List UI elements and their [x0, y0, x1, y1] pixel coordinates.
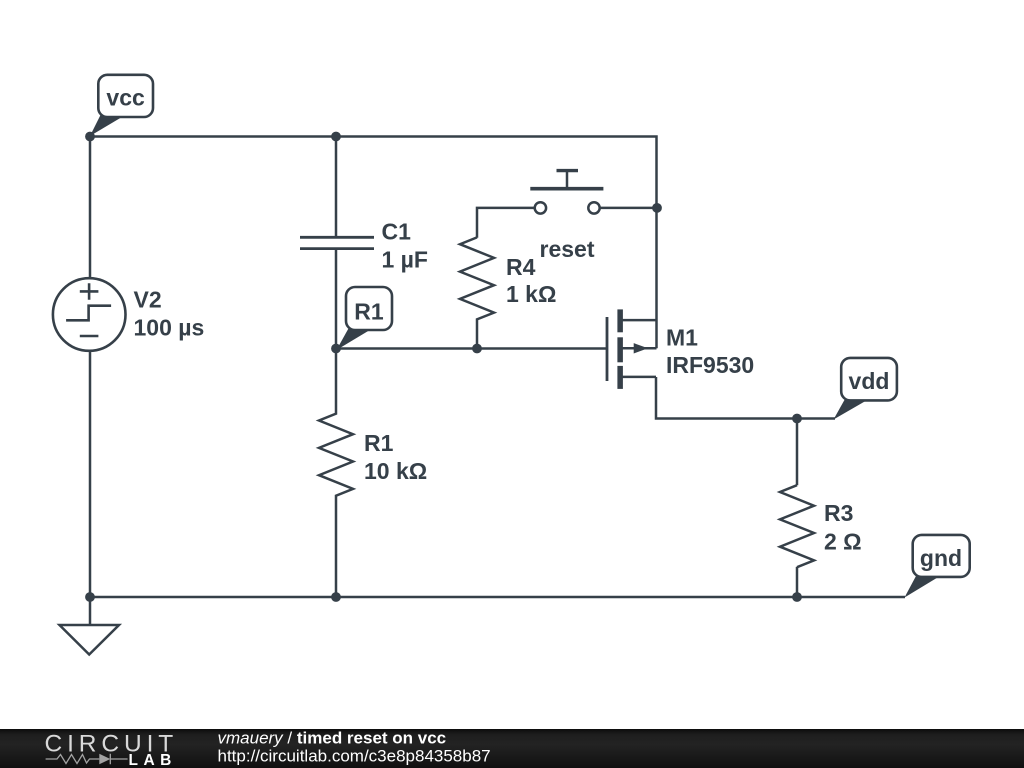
junction R1 bottom [331, 592, 341, 602]
junction R4 bottom [472, 344, 482, 354]
wire left vertical above V2 [89, 137, 92, 279]
node label gnd [905, 535, 970, 598]
capacitor C1 [300, 237, 374, 248]
mosfet M1 IRF9530 [607, 309, 657, 389]
junction R3 bottom [792, 592, 802, 602]
wire ground stub [89, 597, 92, 625]
wire drain to vdd [656, 377, 835, 419]
svg-text:M1: M1 [666, 325, 698, 351]
wire R3 bottom lead [796, 567, 799, 597]
svg-text:10 kΩ: 10 kΩ [364, 458, 427, 484]
svg-text:1 kΩ: 1 kΩ [506, 281, 556, 307]
junction C1 top [331, 132, 341, 142]
resistor R3 [780, 485, 814, 567]
svg-text:1 µF: 1 µF [382, 247, 428, 273]
wire C1 bottom lead [335, 250, 338, 349]
svg-text:vcc: vcc [106, 84, 145, 110]
ground [60, 625, 120, 655]
wire R4 top to button [477, 208, 535, 238]
junction vdd [792, 414, 802, 424]
junction button right [652, 203, 662, 213]
svg-text:2 Ω: 2 Ω [824, 529, 862, 555]
svg-text:C1: C1 [382, 219, 412, 245]
svg-text:gnd: gnd [920, 545, 962, 571]
junction node R1 [331, 344, 341, 354]
wire mid horizontal to gate [336, 347, 606, 350]
wire C1 top lead [335, 137, 338, 237]
junction vcc-left [85, 132, 95, 142]
voltage source V2 [53, 278, 126, 351]
svg-text:vdd: vdd [849, 368, 890, 394]
footer logo squiggle resistor-diode [46, 754, 128, 765]
wire left vertical below V2 [89, 351, 92, 597]
pushbutton SW reset [530, 171, 603, 214]
svg-text:LAB: LAB [129, 752, 177, 768]
svg-text:http://circuitlab.com/c3e8p843: http://circuitlab.com/c3e8p84358b87 [218, 747, 491, 766]
wire bottom gnd rail [90, 596, 905, 599]
svg-text:R4: R4 [506, 254, 536, 280]
junction gnd-left [85, 592, 95, 602]
svg-text:R3: R3 [824, 500, 853, 526]
wire button right to rail [600, 207, 657, 210]
svg-text:R1: R1 [364, 430, 394, 456]
svg-text:R1: R1 [354, 299, 384, 325]
resistor R1 [319, 349, 353, 598]
wire top rail vcc [90, 137, 657, 349]
node label vcc [90, 75, 153, 136]
svg-text:IRF9530: IRF9530 [666, 352, 754, 378]
resistor R4 [460, 237, 494, 348]
wire vdd junction down to R3 [796, 419, 799, 486]
svg-text:V2: V2 [134, 287, 162, 313]
svg-text:vmauery / timed reset on vcc: vmauery / timed reset on vcc [218, 729, 447, 748]
svg-text:reset: reset [540, 236, 595, 262]
node label vdd [834, 358, 897, 420]
svg-text:100 µs: 100 µs [134, 315, 205, 341]
footer bar [0, 729, 1024, 768]
node label R1 [337, 287, 393, 350]
